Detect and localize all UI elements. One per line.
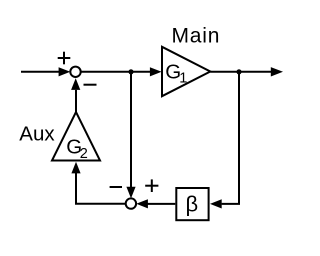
svg-text:1: 1 [179, 71, 187, 87]
wire: node B down and left to beta block [222, 72, 239, 204]
wire: beta block to summing junction S2 [147, 203, 175, 205]
node label - (minus sign at summing junction S1) [84, 84, 97, 86]
block beta (rectangle) [176, 188, 208, 220]
junction dot node B [236, 69, 241, 74]
arrowhead into amplifier G1 [150, 67, 162, 76]
node label - (minus sign at summing junction S2) [110, 186, 122, 188]
arrowhead up into summing junction S1 [71, 78, 80, 90]
wire: node A down into summing junction S2 [130, 72, 132, 187]
arrowhead into summing junction S2 [136, 199, 148, 208]
svg-text:Aux: Aux [19, 123, 55, 146]
node label + (plus sign at summing junction S2) [145, 179, 158, 192]
summing junction S1 (circle) [70, 67, 80, 77]
svg-text:Main: Main [172, 25, 221, 48]
wire: amplifier G2 up into summing junction S1 [75, 90, 77, 112]
wire: summing junction S2 left and up to amplifier G2 [76, 173, 126, 204]
arrowhead up into amplifier G2 [71, 162, 80, 174]
svg-text:2: 2 [80, 146, 88, 162]
amplifier G1 (triangle) [162, 47, 210, 96]
wire: amplifier G1 to output [210, 71, 271, 73]
node label + (plus sign at summing junction S1) [58, 52, 71, 65]
amplifier G2 (triangle) [52, 112, 100, 161]
arrowhead down into summing junction S2 [126, 187, 135, 199]
summing junction S2 (circle) [126, 198, 136, 208]
arrowhead into summing junction S1 [59, 67, 71, 76]
wire: input line into summing junction S1 [21, 71, 60, 73]
arrowhead into beta block [210, 199, 222, 208]
svg-text:β: β [186, 192, 199, 217]
output arrowhead [271, 67, 283, 76]
wire: summing junction S1 to amplifier G1 [81, 71, 151, 73]
junction dot node A [128, 69, 133, 74]
